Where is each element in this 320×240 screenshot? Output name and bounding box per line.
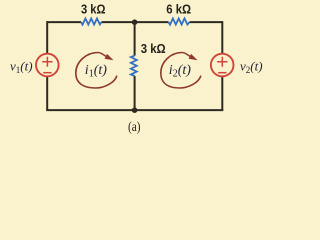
wire bottom rail [46,109,223,111]
wire right branch lower [221,76,223,110]
resistor R3 3k vertical zigzag [131,56,137,76]
svg-text:3 kΩ: 3 kΩ [81,2,106,17]
voltage source V1 circle [36,54,59,77]
mesh current loop i1 arrowhead [105,54,114,60]
wire right branch upper [221,21,223,54]
voltage source V2 circle [211,54,234,77]
svg-text:6 kΩ: 6 kΩ [166,2,191,17]
junction dot bottom [132,107,138,113]
svg-text:i1(t): i1(t) [85,63,107,80]
V2 plus [217,57,227,67]
svg-text:v1(t): v1(t) [10,59,33,76]
resistor R1 3k zigzag [81,19,102,25]
mesh current loop i2 arc [161,53,201,89]
V1 minus [43,72,51,74]
junction dot top [132,19,138,25]
svg-text:3 kΩ: 3 kΩ [141,41,166,56]
mesh current loop i2 arrowhead [189,54,198,60]
wire top rail right segment [190,21,223,23]
wire left branch lower [46,76,48,110]
svg-text:(a): (a) [128,119,141,134]
wire top rail middle segment [102,21,169,23]
wire middle branch lower [134,76,136,110]
svg-text:v2(t): v2(t) [240,59,263,76]
wire middle branch upper [134,22,136,56]
resistor R2 6k zigzag [169,19,190,25]
svg-text:i2(t): i2(t) [169,63,191,80]
V1 plus [42,57,52,67]
wire left branch upper [46,21,48,54]
mesh current loop i1 arc [76,53,117,89]
V2 minus [218,72,226,74]
wire top rail left segment [47,21,81,23]
